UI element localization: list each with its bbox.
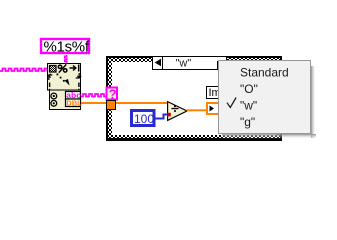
- exclamation left: [49, 83, 51, 91]
- left border: [106, 56, 108, 141]
- context menu: [219, 61, 311, 134]
- subVI icon with play arrow (partly hidden): [207, 103, 219, 114]
- bent arrow glyph left: [49, 74, 53, 80]
- DBL output tag: [66, 99, 81, 107]
- wire: divide output (orange): [187, 109, 208, 111]
- label Im (partly hidden): [207, 87, 221, 100]
- dotted diagonal arrow: [57, 74, 70, 86]
- svg-text:DBL: DBL: [66, 99, 82, 108]
- wire: scanned DBL to tunnel to divide (orange): [81, 102, 167, 104]
- string constant %1s%f: [41, 39, 90, 56]
- svg-text:?: ?: [109, 87, 117, 102]
- wire: format string (vertical zigzag): [65, 55, 67, 63]
- top border: [106, 56, 282, 58]
- selector label of case structure: [153, 57, 227, 70]
- divide function: [168, 102, 187, 121]
- tunnel DBL (orange): [107, 101, 116, 110]
- case structure border frame: [106, 56, 282, 141]
- selector tunnel ?: [107, 87, 118, 102]
- string glyph (checkered square): [50, 66, 57, 73]
- bent arrow glyph right: [76, 73, 82, 78]
- svg-text:100: 100: [134, 112, 154, 126]
- svg-text:"w": "w": [240, 99, 257, 113]
- checkmark for "w": [227, 98, 236, 108]
- context menu shadow: [311, 66, 316, 138]
- svg-text:%1s%f: %1s%f: [44, 39, 90, 56]
- numeric constant 100: [132, 111, 155, 127]
- decrement arrow: [155, 59, 161, 67]
- % glyph: [58, 64, 67, 72]
- coercion dot (red): [167, 113, 171, 117]
- divide sign: [174, 105, 176, 107]
- svg-text:Standard: Standard: [240, 66, 289, 80]
- increment arrow separator: [217, 61, 219, 70]
- bottom border: [106, 135, 282, 138]
- wire: 100 to divide (blue): [156, 115, 169, 119]
- expand bullet 2: [51, 100, 57, 106]
- wire: scanned string abc to selector (wavy magenta): [81, 94, 106, 97]
- svg-text:"g": "g": [240, 115, 255, 129]
- right border: [280, 56, 282, 141]
- svg-text:"w": "w": [176, 58, 192, 70]
- node: Scan From String U1: [48, 64, 83, 110]
- abc output tag: [66, 92, 81, 100]
- wire: string input (wavy magenta): [0, 69, 51, 72]
- arrow-bracket glyph: [70, 65, 79, 72]
- svg-text:"O": "O": [240, 82, 258, 96]
- expand bullet 1: [51, 93, 57, 99]
- exclamation right: [78, 83, 80, 91]
